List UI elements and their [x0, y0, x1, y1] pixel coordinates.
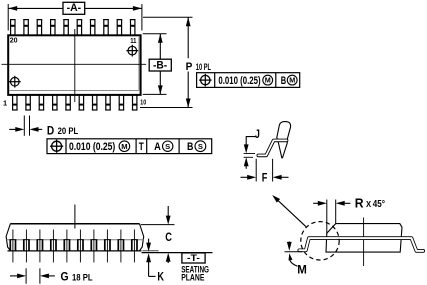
svg-text:M: M	[289, 76, 295, 85]
top view pin 19	[23, 19, 29, 34]
side view lead 9 centerline	[120, 230, 122, 263]
svg-text:10 PL: 10 PL	[196, 62, 211, 72]
svg-text:0.010 (0.25): 0.010 (0.25)	[218, 75, 260, 87]
top view pin 5	[65, 95, 71, 110]
top view pin 18	[37, 19, 43, 34]
datum target symbol near pin 1	[11, 77, 20, 86]
dimension G arrows	[10, 275, 18, 277]
end view leads (gull-wing both sides)	[299, 238, 423, 251]
side view lead 10 body	[131, 240, 138, 251]
detail leader line to lead detail	[275, 197, 307, 227]
dimension -B- line and arrows	[159, 34, 161, 60]
svg-text:B: B	[187, 141, 193, 153]
side view lead 3 centerline	[39, 230, 41, 263]
dimension P line and arrows	[187, 17, 189, 58]
top view pin 15	[77, 19, 83, 34]
svg-text:D: D	[47, 123, 55, 137]
svg-text:X: X	[366, 200, 372, 209]
feature control frame for D leads	[47, 139, 212, 154]
dimension D arrows	[9, 128, 16, 130]
dimension G extension lines	[25, 268, 27, 283]
svg-text:M: M	[121, 142, 127, 151]
top view pin 10	[132, 95, 138, 110]
end view vertical centerline	[363, 218, 365, 267]
top view pin 20	[10, 19, 16, 34]
dimension J bottom arrow	[245, 165, 247, 169]
svg-text:C: C	[165, 232, 172, 244]
svg-text:45°: 45°	[373, 198, 385, 210]
svg-text:A: A	[154, 141, 161, 153]
dimension J top arrow	[244, 144, 249, 153]
svg-text:P: P	[186, 61, 193, 73]
top view pin 8	[105, 95, 111, 110]
svg-text:20: 20	[10, 36, 18, 45]
svg-text:-T-: -T-	[187, 253, 200, 263]
top view pin 11	[130, 19, 136, 34]
side view lead 6 centerline	[79, 230, 81, 263]
dimension K top arrow	[148, 239, 150, 243]
side view vertical centerline tick	[74, 205, 76, 229]
svg-text:-A-: -A-	[67, 2, 82, 14]
dimension C top arrow	[167, 206, 169, 217]
dimension P extension line bottom	[140, 107, 193, 109]
top view pin 4	[52, 95, 58, 110]
side view lead 8 centerline	[106, 230, 108, 263]
dimension M extension line	[285, 251, 303, 253]
datum -A- label box	[63, 2, 85, 14]
svg-text:-B-: -B-	[153, 60, 168, 72]
side view lead exit line	[7, 239, 144, 241]
top view pin 9	[119, 95, 125, 110]
seating plane stub (body bottom, gray)	[142, 250, 158, 252]
svg-text:S: S	[198, 142, 203, 151]
svg-text:J: J	[255, 129, 260, 141]
side view lead 7 body	[91, 240, 98, 251]
top view vertical centerline	[74, 29, 76, 102]
top view body inner right edge	[138, 37, 140, 90]
side view lead 10 centerline	[133, 230, 135, 263]
side view lead 3 body	[37, 240, 44, 251]
dimension M curved leader	[289, 257, 297, 267]
dimension F arrows	[241, 176, 249, 178]
top view pin 13	[103, 19, 109, 34]
svg-text:20 PL: 20 PL	[58, 126, 79, 136]
dimension C extension line top	[141, 224, 175, 226]
svg-text:F: F	[262, 172, 268, 184]
top view pin 1	[12, 95, 18, 110]
seating plane line	[142, 252, 213, 254]
svg-text:S: S	[165, 142, 170, 151]
side view lead 1 centerline	[12, 230, 14, 263]
svg-text:M: M	[265, 76, 271, 85]
svg-text:18 PL: 18 PL	[72, 272, 93, 282]
dimension R extension lines	[326, 200, 328, 234]
svg-text:G: G	[61, 270, 69, 284]
top view pin 3	[39, 95, 45, 110]
side view body right end	[139, 224, 143, 251]
dimension M down arrow	[288, 241, 290, 243]
dimension J bracket	[246, 137, 256, 146]
side view lead 4 centerline	[52, 230, 54, 263]
svg-text:0.010 (0.25): 0.010 (0.25)	[69, 141, 116, 153]
dimension J extension stubs	[244, 153, 255, 155]
side view lead 2 body	[23, 240, 30, 251]
top view pin 7	[92, 95, 98, 110]
top view pin 14	[90, 19, 96, 34]
dimension R arrows	[313, 202, 319, 204]
top view package body	[8, 35, 140, 95]
detail circle (dashed)	[301, 222, 339, 260]
dimension D extension lines	[23, 116, 25, 136]
datum -T- label box	[182, 253, 205, 263]
dimension -A- extension line left	[7, 4, 9, 31]
svg-text:M: M	[297, 263, 307, 277]
dimension -A- extension line right	[141, 4, 143, 31]
dimension K bottom arrow and leader	[148, 261, 150, 276]
datum -B- label box	[149, 59, 171, 71]
datum target symbol near pin 11	[128, 46, 137, 55]
side view lead 5 body	[64, 240, 71, 251]
side view lead 8 body	[104, 240, 111, 251]
top view pin 17	[50, 19, 56, 34]
svg-text:10: 10	[140, 98, 146, 107]
dimension F extension lines	[255, 159, 257, 182]
dimension -A- line and arrows	[8, 7, 63, 9]
top view horizontal centerline	[2, 63, 147, 65]
dimension P extension line top	[143, 16, 193, 18]
top view pin 12	[117, 19, 123, 34]
dimension -B- extension line bottom	[143, 93, 167, 95]
side view body left end	[6, 224, 11, 251]
svg-text:T: T	[139, 141, 144, 153]
side view lead 5 centerline	[66, 230, 68, 263]
top view pin 16	[63, 19, 69, 34]
svg-text:1: 1	[3, 99, 7, 108]
top view pin 6	[79, 95, 85, 110]
side view lead 6 body	[77, 240, 84, 251]
side view lead 2 centerline	[25, 230, 27, 263]
end view package body	[326, 224, 402, 253]
lead detail package body end blob	[277, 122, 291, 158]
svg-text:11: 11	[130, 36, 136, 45]
svg-text:PLANE: PLANE	[181, 272, 204, 282]
svg-text:R: R	[355, 196, 364, 210]
feature control frame for P leads	[197, 73, 300, 88]
lead detail gull-wing lead	[258, 140, 286, 155]
side view lead 4 body	[50, 240, 57, 251]
side view lead 7 centerline	[93, 230, 95, 263]
side view lead 9 body	[118, 240, 125, 251]
side view lead 1 body	[10, 240, 17, 251]
dimension C bottom arrow	[167, 260, 169, 263]
side view body top edge	[10, 223, 139, 225]
dimension -B- extension line top	[143, 33, 167, 35]
svg-text:B: B	[281, 75, 287, 87]
side view body bottom edge	[8, 250, 142, 252]
svg-text:K: K	[157, 271, 164, 283]
top view body inner bottom edge	[10, 90, 140, 92]
top view pin 2	[25, 95, 31, 110]
